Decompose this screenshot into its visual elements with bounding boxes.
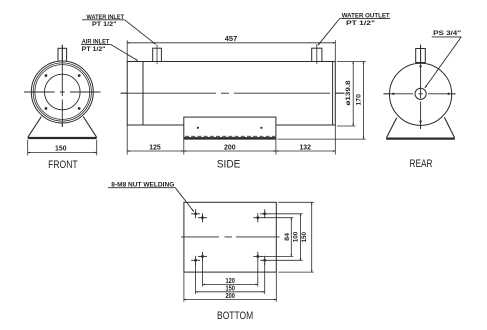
dim 150v ext bottom: [278, 271, 313, 273]
dim 150 line: [28, 152, 97, 154]
water inlet stub centerline: [156, 45, 158, 65]
svg-text:150: 150: [225, 285, 235, 292]
leader PS 3/4: [425, 37, 461, 88]
plate dot right: [260, 127, 262, 129]
dim 150v ext top: [278, 201, 313, 203]
dim 125 line: [127, 150, 184, 152]
dim 100 line: [300, 214, 302, 260]
svg-text:PT 1/2": PT 1/2": [82, 46, 106, 53]
nut mark inner top-left: [198, 213, 207, 222]
dim 120 line: [203, 283, 258, 285]
svg-text:150: 150: [301, 232, 308, 243]
leader AIR INLET: [111, 44, 138, 60]
rear dot right: [447, 93, 449, 95]
dim 457 ext right: [334, 40, 336, 61]
dim 150b ext right: [264, 263, 266, 294]
dim 200 line: [184, 150, 276, 152]
dim 457 line: [127, 42, 335, 44]
svg-text:120: 120: [225, 278, 235, 285]
nut mark inner bottom-right: [253, 252, 262, 261]
svg-text:ø139.8: ø139.8: [345, 80, 352, 105]
mounting plate bottom edge (thick): [184, 137, 276, 139]
dia dim top ext line: [337, 61, 366, 63]
rear shell circle: [390, 63, 452, 125]
dim 150 ext line right: [96, 140, 98, 156]
nut mark inner top-right: [253, 213, 262, 222]
front horizontal centerline: [24, 91, 101, 93]
svg-text:125: 125: [149, 144, 161, 151]
front flange ring 2: [33, 63, 91, 121]
front stand right leg: [83, 117, 96, 138]
svg-text:100: 100: [292, 231, 299, 242]
svg-text:PT 1/2": PT 1/2": [92, 21, 117, 28]
label WATER OUTLET underline: [340, 18, 391, 20]
leader 8-M8 line: [175, 188, 194, 212]
rear dot top: [419, 65, 421, 67]
dim 84 ext top: [262, 217, 293, 219]
dim 200b ext left: [183, 272, 185, 302]
label PS 3/4 underline: [432, 36, 462, 38]
front base plate (thick): [28, 137, 97, 139]
dim 200b ext right: [275, 272, 277, 302]
rear port stub: [416, 49, 426, 63]
nut mark outer top-right: [260, 209, 269, 218]
bottom chain ext at left end: [126, 125, 128, 155]
dia dim bottom ext line: [337, 125, 355, 127]
rear center hole PS 3/4: [415, 88, 426, 99]
front air port stub: [58, 48, 67, 61]
dim 170 bottom ext line: [278, 138, 366, 140]
dim 132 line: [276, 150, 335, 152]
dim 200b line: [184, 299, 276, 301]
front outer flange circle: [31, 61, 93, 123]
front bolt square top-left: [45, 74, 48, 77]
rear crosshair vertical: [420, 45, 422, 129]
dim 150v line: [311, 202, 313, 272]
bottom plate outline: [184, 202, 276, 272]
rear stand left leg: [387, 118, 397, 138]
rear dot left: [392, 93, 394, 95]
label AIR INLET underline: [81, 43, 111, 45]
dim 84 ext bottom: [262, 255, 293, 257]
svg-text:SIDE: SIDE: [217, 159, 241, 171]
bottom chain ext right end: [334, 125, 336, 155]
svg-text:170: 170: [355, 94, 362, 106]
leader WATER INLET: [125, 20, 156, 45]
svg-text:200: 200: [224, 144, 236, 151]
water inlet stub: [153, 48, 162, 61]
front crosshair redraw over circle fill : vertical: [61, 45, 63, 127]
dim 150 ext line left: [27, 140, 29, 156]
dim 457 ext left: [126, 40, 128, 61]
dim 84 line: [290, 218, 292, 257]
front bolt square top-right: [78, 74, 81, 77]
nut mark inner bottom-left: [198, 252, 207, 261]
svg-text:FRONT: FRONT: [48, 159, 78, 171]
leader WATER OUTLET: [318, 19, 340, 46]
front bolt square bottom-left: [45, 107, 48, 110]
plate dot left: [197, 127, 199, 129]
side shell outline: [127, 62, 335, 126]
svg-text:200: 200: [225, 293, 235, 300]
rear crosshair horizontal: [384, 93, 456, 95]
nut mark outer top-left: [191, 209, 200, 218]
label WATER INLET underline: [82, 19, 124, 21]
svg-text:BOTTOM: BOTTOM: [217, 310, 253, 322]
dim 150b ext left: [195, 263, 197, 294]
front flange ring 3: [35, 65, 90, 120]
front stand left leg: [28, 117, 42, 138]
side axis centerline inside shell: [121, 92, 345, 94]
dim 120 ext left: [202, 261, 204, 287]
svg-text:PS 3/4": PS 3/4": [433, 30, 461, 37]
dim dia139.8 line: [352, 62, 354, 127]
front bolt square bottom-right: [78, 107, 81, 110]
dim 100 ext bottom: [269, 259, 303, 261]
dim 120 ext right: [257, 261, 259, 287]
mounting plate: [184, 117, 276, 139]
svg-text:REAR: REAR: [410, 158, 433, 170]
front crosshair horizontal: [24, 91, 101, 93]
mounting plate hidden nut line: [185, 135, 275, 137]
front inner bore circle: [45, 74, 81, 110]
nut mark outer bottom-left: [191, 256, 200, 265]
rear dot bottom: [419, 120, 421, 122]
svg-text:84: 84: [284, 233, 291, 241]
rear base plate (thick): [386, 137, 455, 139]
dim 150b line: [196, 291, 265, 293]
dim 170 line: [363, 62, 365, 140]
side right cap line: [332, 62, 334, 126]
svg-text:PT 1/2": PT 1/2": [346, 20, 375, 27]
rear horizontal centerline: [384, 93, 456, 95]
side left flange line: [142, 62, 144, 126]
bottom chain ext plate right: [275, 140, 277, 155]
rear stand right leg: [444, 117, 454, 137]
nut mark outer bottom-right: [260, 256, 269, 265]
water outlet stub: [312, 48, 322, 61]
svg-text:150: 150: [55, 146, 67, 153]
svg-text:457: 457: [225, 36, 238, 43]
dim 100 ext top: [269, 213, 303, 215]
bottom plate centerline: [181, 236, 280, 238]
bottom chain ext plate left: [183, 140, 185, 155]
svg-text:132: 132: [299, 144, 311, 151]
water outlet stub centerline: [316, 44, 318, 64]
side axis centerline: [121, 92, 345, 94]
front vertical centerline: [61, 45, 63, 127]
leader 8-M8 underline: [108, 187, 175, 189]
rear vertical centerline: [420, 45, 422, 129]
